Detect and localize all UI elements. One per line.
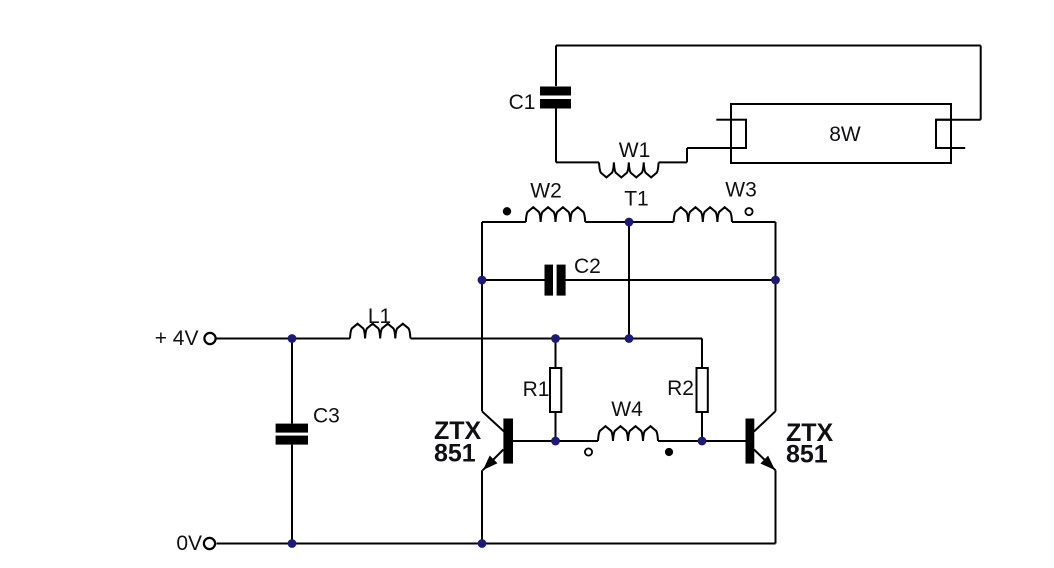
svg-text:851: 851	[786, 441, 828, 469]
svg-text:W2: W2	[530, 180, 562, 203]
svg-text:R2: R2	[667, 377, 694, 400]
svg-text:W3: W3	[725, 179, 757, 202]
svg-text:C3: C3	[313, 405, 340, 428]
svg-text:C2: C2	[574, 255, 601, 278]
svg-text:W1: W1	[619, 139, 651, 162]
svg-text:8W: 8W	[829, 123, 861, 146]
svg-text:W4: W4	[611, 398, 643, 421]
svg-text:+ 4V: + 4V	[155, 327, 199, 350]
svg-text:T1: T1	[624, 188, 649, 211]
svg-text:R1: R1	[523, 378, 550, 401]
svg-text:851: 851	[434, 440, 476, 468]
svg-text:L1: L1	[368, 305, 391, 328]
svg-text:0V: 0V	[176, 532, 202, 555]
svg-text:C1: C1	[509, 91, 536, 114]
